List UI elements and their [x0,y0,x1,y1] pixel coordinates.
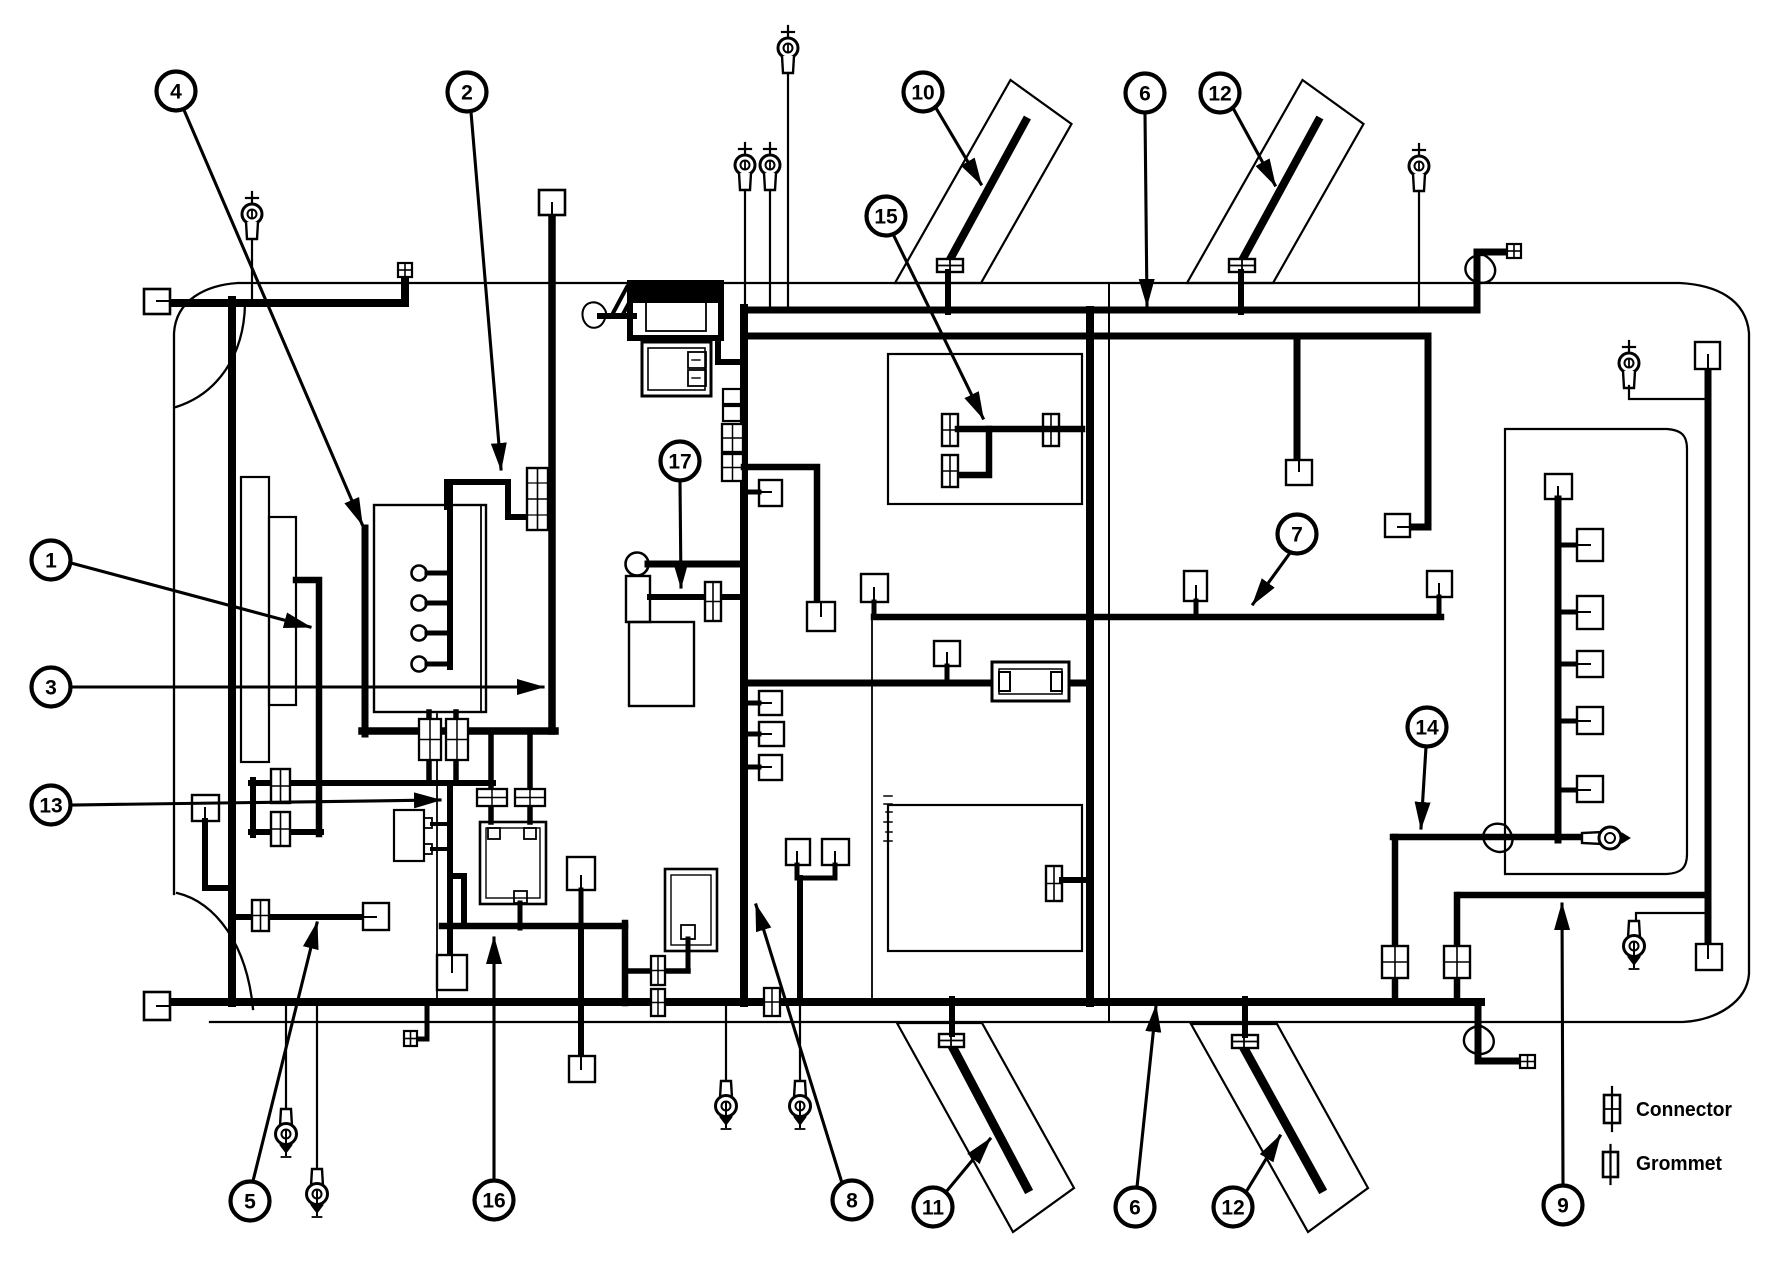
rear bus stub 3 [1558,662,1577,667]
branch drop at x1297 [1294,336,1301,462]
ring terminal cowl 1 [735,143,755,190]
shifter box [861,574,888,617]
grommet on wire 14 [1478,818,1518,858]
wire ring cowl 1 [744,190,746,307]
cabin floor wire y926 [442,923,625,930]
connector stack conn 2 [722,454,743,481]
blower wire lower [650,594,744,600]
tall connector left [419,719,441,760]
rear bus head box [1545,474,1572,499]
HVAC wire drop [958,429,989,475]
box on wire 13 [192,795,219,821]
connector on wire14 drop [1382,946,1408,978]
wire stub from visor 12 to front trunk [1238,272,1244,312]
pair box right (822) [822,839,849,865]
wire stub from visor 10 to front trunk [945,272,951,312]
svg-text:16: 16 [482,1190,505,1213]
cowl top connector box [539,190,565,215]
HVAC connector B [1043,414,1059,446]
ground terminal 2 [307,1169,328,1217]
svg-text:1: 1 [45,550,57,573]
bottom floor trunk [170,998,1481,1006]
box bottom right [1696,944,1722,970]
dash feed wire [600,313,634,319]
svg-text:6: 6 [1129,1197,1141,1220]
callout 10 [904,73,982,185]
legend grommet text [1636,1152,1722,1175]
legend connector text [1636,1098,1732,1121]
connector stack box 1 [723,389,741,404]
rear bus stub 4 [1558,719,1577,724]
tall component left 2 [269,517,296,705]
callout 9 [1544,904,1583,1225]
connector stack conn 1 [722,424,743,452]
callout 5 [231,923,318,1221]
module feed left [488,731,494,822]
callout 12 bottom [1214,1136,1281,1227]
rear module stub to trunk [1062,877,1090,883]
wire ring cowl tall [787,73,789,307]
tall component left (bracket) [241,477,269,762]
wire 1 (battery cable) [296,580,319,834]
grommet on bottom right elbow [1461,1023,1496,1057]
second right trunk [744,336,1428,527]
instrument module 1 [630,283,721,338]
mid cabin trunk (wire 7) [874,614,1441,621]
connector on wire9 drop [1444,946,1470,978]
svg-text:11: 11 [922,1197,945,1220]
cowl trunk vertical [548,215,556,731]
legend grommet symbol [1603,1145,1618,1184]
rear ground thin wire [1636,913,1708,928]
ECU wire y971 [627,968,688,974]
trunk side box 1 [744,691,782,715]
trunk side box 2 [744,722,784,746]
pair box join wires [797,865,835,1002]
wire from ring to front trunk [251,240,253,301]
relay drop wire [450,783,464,955]
wire 14 drop [1392,837,1399,1002]
fuse box terminal 1 [412,566,451,581]
main floor trunk vertical [740,308,748,1003]
callout 4 [157,72,363,525]
bottom trunk right elbow [1478,1002,1518,1061]
bottom-left door harness (wire 11) [952,1046,1027,1188]
module 2 to trunk link [718,338,744,362]
floor wire drop to trunk [622,923,629,1003]
callout 15 [867,197,984,419]
rear bus stub 1 [1558,543,1577,548]
callout 11 [914,1139,991,1227]
svg-text:4: 4 [170,81,182,104]
left junction vertical [250,780,256,835]
callout 2 [448,73,502,470]
box right of trunk (switch) [744,480,782,506]
wire ring rear deck [1629,386,1708,399]
top-right visor harness (wire 12) [1240,121,1318,264]
connector on blower wire [705,582,721,621]
console partition line [436,714,438,1001]
roof trunk right (upper) [744,252,1506,310]
svg-text:10: 10 [911,82,934,105]
inner rear panel outline [1505,429,1687,874]
connector on upper junction wire [271,769,290,803]
connector on door 11 wire [939,1034,964,1047]
grommet at dash wire [580,300,608,329]
ring terminal right cowl [1409,144,1429,191]
blower body small [626,576,650,622]
rear bus box 5 [1577,776,1603,802]
module feed right [527,731,533,822]
ground terminal 3 [716,1081,737,1129]
top-left visor panel [895,80,1072,283]
box at mid trunk right end [1427,571,1452,617]
svg-text:15: 15 [874,206,898,229]
rear module connector [1046,866,1062,901]
cabin cross trunk y683 [744,680,1090,687]
relay stub lower [432,847,450,851]
front wheel arch upper arc [176,304,245,407]
top-left visor harness (wire 10) [948,121,1026,264]
ring terminal front-left [242,192,262,239]
fuse box top feed S-wire [447,482,530,566]
box under branch x1297 [1286,460,1312,485]
wire 4 vertical (callout target) [362,528,369,734]
callout 3 [32,668,544,707]
ground terminal rear [1624,921,1645,969]
module bottom stub [518,903,523,928]
HVAC connector C [942,455,958,487]
legend connector symbol [1604,1087,1620,1131]
wire 13 connector drop [205,821,232,888]
ground terminal 4 [790,1081,811,1129]
callout 8 [756,905,872,1220]
bottom-left connector drop [404,1002,427,1046]
box top right [1695,342,1720,369]
front-left connector box [144,289,170,314]
inline relay on y683 [992,662,1069,701]
rear bus stub 2 [1558,610,1577,615]
HVAC module outline [888,354,1082,504]
HVAC wire y429 [958,426,1082,433]
relay box small [394,810,432,861]
front wheel arch lower arc [177,893,253,1009]
ground pigtail 2 wire [316,1002,318,1178]
svg-text:9: 9 [1557,1195,1569,1218]
fuse box terminal 2 [412,596,451,611]
connector at roof trunk end [1507,244,1521,258]
grommet on roof trunk [1462,251,1499,287]
svg-text:6: 6 [1139,83,1151,106]
connector on lower junction wire [271,812,290,846]
wire 9 drop [1454,895,1461,1002]
right vertical trunk [1086,310,1094,1003]
svg-text:3: 3 [45,677,57,700]
vehicle body outline [174,283,1749,1022]
fuse box terminal 4 [412,657,451,672]
svg-text:12: 12 [1221,1197,1244,1220]
rear bus box 3 [1577,651,1603,677]
box at second trunk end [1385,514,1410,537]
wire ring right cowl [1418,191,1420,306]
bottom-left door panel [897,1023,1074,1232]
callout 1 [32,541,311,628]
ground pigtail 1 wire [285,1002,287,1118]
callout 13 [32,786,441,825]
relay drop end box [437,955,467,990]
front harness trunk (engine bay) [170,277,405,303]
connector at bottom right elbow end [1520,1055,1535,1068]
svg-text:5: 5 [244,1191,256,1214]
blower ball [626,553,649,576]
rear bus box 4 [1577,707,1603,734]
connector on door 12 wire [1232,1035,1258,1048]
connector on lamp feed [252,900,269,931]
connector on visor 10 wire [937,259,963,272]
relay stub upper [432,822,450,826]
callout 12 top [1201,74,1276,186]
connector pair drop right [453,712,459,783]
connector stack box 2 [723,406,741,421]
tall connector at cowl trunk [527,468,548,530]
callout 6 top [1126,74,1165,306]
rear bus vertical [1555,499,1562,840]
connector on visor 12 wire [1229,259,1255,272]
svg-text:Grommet: Grommet [1636,1152,1722,1175]
drop x581 below [578,926,584,1058]
lamp feed wire y917 [232,914,363,920]
connector on module feed right [515,789,545,806]
svg-text:2: 2 [461,82,473,105]
callout 7 [1253,515,1317,605]
svg-text:Connector: Connector [1636,1098,1732,1121]
ground pigtail 4 wire [799,1002,801,1090]
right rear vertical harness [1705,369,1712,944]
wire 14 horizontal [1393,834,1598,841]
ring terminal cowl 2 [760,143,780,190]
svg-text:14: 14 [1415,717,1439,740]
rear module outline [888,805,1082,951]
bulkhead partition line [1108,284,1110,1021]
wire ring cowl 2 [769,190,771,307]
svg-text:12: 12 [1208,83,1231,106]
ring terminal side (wire 14 end) [1582,827,1630,849]
connector on module feed left [477,789,507,806]
left junction wire pair lower [251,829,321,835]
ring terminal cowl tall [778,26,798,73]
wire 9 horizontal [1460,892,1705,899]
hang box stub [579,890,584,926]
connector on bottom trunk right [764,988,780,1016]
micro text marks [884,796,892,841]
dash hatch marks [612,287,637,316]
bottom-right door panel [1191,1024,1368,1232]
connector on ECU wire [651,956,665,985]
tall connector right [446,719,468,760]
fuse box terminal bus [447,566,453,667]
callout 16 [475,938,514,1220]
console box [807,602,835,631]
svg-text:8: 8 [846,1190,858,1213]
box on y683 wire [934,641,960,683]
junction block module [480,822,546,904]
rear bus stub 5 [1558,788,1577,793]
HVAC connector A [942,414,958,446]
bottom-right door harness (wire 12b) [1245,1050,1321,1188]
top-right visor panel [1187,80,1364,283]
fuse box body [374,505,486,712]
ECU bottom stub [686,939,691,971]
ground terminal 1 [276,1109,297,1157]
rear console line [871,619,873,999]
blower body large [629,622,694,706]
left junction wire pair upper [251,780,493,786]
ECU module double box [665,869,717,951]
svg-text:7: 7 [1291,524,1303,547]
callout 17 [661,442,700,588]
lower cowl wire [362,727,555,735]
wire to console box [744,467,817,604]
blower wire upper [648,561,744,568]
box at x581 end [569,1056,595,1082]
fuse box terminal 3 [412,626,451,641]
connector pair drop left [426,712,432,783]
pair box left (786) [786,839,810,865]
callout 6 bottom [1116,1006,1157,1227]
callout 14 [1408,708,1447,829]
connector at front trunk end [398,263,412,277]
svg-text:13: 13 [39,795,62,818]
connector on bottom trunk left [651,989,665,1016]
instrument module 2 [642,342,711,396]
box under mid trunk (1184) [1184,571,1207,617]
left vertical trunk [228,300,236,1003]
front-bottom-left connector box [144,992,170,1020]
rear bus box 1 [1577,529,1603,561]
trunk side box 3 [744,755,782,780]
ring terminal rear deck [1619,341,1639,388]
svg-text:17: 17 [668,451,691,474]
wire stub to door 11 [949,999,955,1034]
wire stub to door 12 [1242,999,1248,1035]
rear bus box 2 [1577,596,1603,629]
ground pigtail 3 wire [725,1002,727,1090]
hang box above y926 [567,857,595,890]
lamp connector box [363,903,389,930]
